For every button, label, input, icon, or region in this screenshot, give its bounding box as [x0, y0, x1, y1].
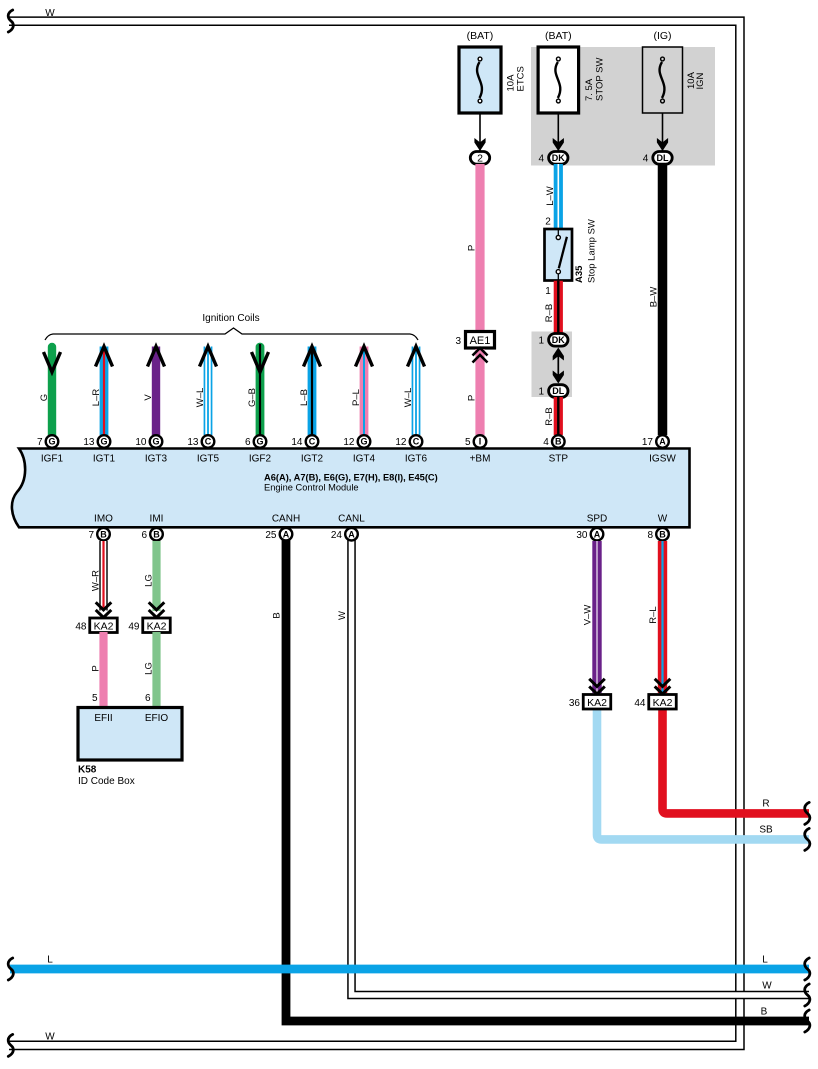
svg-text:EFII: EFII [94, 713, 112, 724]
wire R (red): from KA2-44 down, right to edge [663, 709, 810, 813]
svg-text:48: 48 [75, 622, 87, 633]
fuse 7.5A STOP SW (BAT) [538, 30, 605, 113]
double chevron into KA2-36 [589, 679, 605, 694]
svg-text:5: 5 [92, 693, 98, 704]
arrow from IGN fuse to connector 4 DL [662, 113, 664, 151]
svg-text:A: A [348, 529, 355, 539]
svg-text:10: 10 [135, 437, 147, 448]
svg-text:P: P [466, 395, 477, 401]
wire P (pink) from AE1 to ECM pin 5-I [475, 349, 484, 435]
svg-text:B: B [272, 612, 283, 618]
svg-text:44: 44 [634, 698, 646, 709]
svg-text:STOP SW: STOP SW [594, 58, 605, 101]
svg-text:25: 25 [265, 530, 277, 541]
svg-text:W: W [45, 1032, 55, 1043]
svg-text:IGSW: IGSW [649, 454, 676, 465]
svg-text:V–W: V–W [583, 605, 594, 626]
junction double arrow between DK and DL [553, 348, 564, 384]
svg-text:6: 6 [145, 693, 151, 704]
wire B-W (black) from DL oval to ECM pin 17-A [658, 164, 668, 435]
fuse 10A ETCS (BAT) [459, 30, 527, 113]
svg-text:W: W [762, 981, 772, 992]
svg-text:CANL: CANL [338, 513, 365, 524]
svg-text:(BAT): (BAT) [545, 30, 572, 42]
svg-text:A35: A35 [574, 265, 585, 283]
svg-text:W–R: W–R [90, 570, 101, 591]
svg-text:L: L [47, 955, 53, 966]
svg-text:1: 1 [545, 286, 551, 297]
arrow from STOP SW fuse to connector 4 DK [557, 113, 559, 151]
break mark SB right [805, 828, 810, 850]
wire SB (sky blue): from KA2-36 down, right to edge [597, 709, 809, 839]
svg-text:Ignition Coils: Ignition Coils [202, 313, 259, 324]
svg-text:LG: LG [144, 662, 155, 675]
double chevron into KA2-44 [655, 679, 671, 694]
svg-text:R–L: R–L [648, 606, 659, 623]
junction block KA2 pin 36 [569, 695, 611, 710]
svg-text:A: A [283, 529, 290, 539]
svg-text:P: P [91, 665, 102, 671]
break mark W top left [8, 10, 13, 32]
svg-text:G: G [152, 437, 159, 447]
svg-text:IGF1: IGF1 [41, 454, 64, 465]
K58 ID Code Box [78, 708, 182, 761]
svg-text:+BM: +BM [470, 454, 491, 465]
svg-text:L–R: L–R [91, 389, 102, 407]
double chevron into KA2-48 [96, 602, 112, 617]
connector oval 2 [470, 152, 489, 165]
svg-text:L: L [762, 955, 768, 966]
svg-text:6: 6 [245, 437, 251, 448]
stop lamp switch A35 [545, 229, 573, 281]
wire LG (light green) from KA2-49 to ID code box pin 6 EFIO [152, 632, 160, 708]
svg-text:B: B [555, 437, 562, 447]
svg-text:L–W: L–W [545, 186, 556, 206]
svg-text:KA2: KA2 [653, 697, 673, 709]
svg-text:K58: K58 [78, 765, 97, 776]
svg-text:W: W [45, 8, 55, 19]
svg-text:4: 4 [543, 437, 549, 448]
svg-text:IGT3: IGT3 [145, 454, 168, 465]
svg-text:A6(A), A7(B), E6(G), E7(H), E8: A6(A), A7(B), E6(G), E7(H), E8(I), E45(C… [264, 473, 438, 483]
break mark W right [805, 984, 810, 1006]
wire L-W (blue/white) from DK oval to stop lamp switch [554, 164, 563, 229]
svg-text:IGF2: IGF2 [249, 454, 272, 465]
svg-text:5: 5 [465, 437, 471, 448]
svg-text:4: 4 [643, 153, 649, 164]
connector oval 1 DL [539, 385, 568, 398]
svg-text:V: V [143, 394, 154, 401]
arrow from ETCS fuse to connector 2 [479, 113, 481, 151]
wire CANL (white, W): ECM pin 24-A down, right to edge [352, 540, 810, 995]
svg-text:IGT1: IGT1 [93, 454, 116, 465]
wire P (pink) from oval 2 to AE1 [475, 164, 484, 332]
svg-text:B: B [100, 529, 107, 539]
wire R-B (red/black) from DL oval to ECM pin 4-B [554, 397, 563, 435]
svg-text:W–L: W–L [403, 388, 414, 408]
svg-text:12: 12 [343, 437, 355, 448]
svg-text:KA2: KA2 [94, 620, 114, 632]
svg-text:7: 7 [88, 530, 94, 541]
svg-text:IGN: IGN [695, 72, 706, 89]
ECM: Engine Control Module block [12, 449, 690, 528]
svg-text:G: G [256, 437, 263, 447]
junction block KA2 pin 49 [128, 618, 170, 633]
wire W–L for IGT6 (ignition coil lead) [412, 347, 421, 436]
svg-text:P–L: P–L [351, 389, 362, 406]
svg-text:IGT2: IGT2 [301, 454, 324, 465]
svg-text:KA2: KA2 [587, 697, 607, 709]
wire CANH (black, B): ECM pin 25-A down, right to edge [286, 540, 809, 1021]
svg-text:EFIO: EFIO [145, 713, 169, 724]
svg-text:14: 14 [291, 437, 303, 448]
svg-text:AE1: AE1 [470, 335, 491, 347]
svg-text:I: I [479, 437, 482, 447]
connector oval 1 DK [539, 334, 568, 347]
break mark R right [805, 802, 810, 824]
svg-text:IGT6: IGT6 [405, 454, 428, 465]
svg-text:2: 2 [477, 153, 483, 165]
svg-text:IGT5: IGT5 [197, 454, 220, 465]
wire W–L for IGT5 (ignition coil lead) [204, 347, 213, 436]
svg-text:Stop Lamp SW: Stop Lamp SW [587, 219, 598, 283]
wire R-L (red/blue) from ECM pin 8-B to KA2-44 [658, 541, 667, 693]
svg-text:DK: DK [552, 335, 565, 345]
svg-text:DL: DL [657, 153, 669, 163]
svg-text:ETCS: ETCS [516, 66, 527, 91]
break mark L right [805, 958, 810, 980]
svg-text:G: G [100, 437, 107, 447]
svg-text:IGT4: IGT4 [353, 454, 376, 465]
svg-text:36: 36 [569, 698, 581, 709]
svg-text:A: A [594, 529, 601, 539]
svg-text:LG: LG [144, 574, 155, 587]
svg-text:B–W: B–W [649, 287, 660, 308]
svg-text:A: A [659, 437, 666, 447]
svg-text:DL: DL [552, 386, 564, 396]
svg-text:ID Code Box: ID Code Box [78, 776, 135, 787]
svg-text:SB: SB [759, 825, 773, 836]
wire R-B (red/black) from switch to oval 1 DK [554, 281, 563, 334]
double chevron into KA2-49 [149, 602, 165, 617]
svg-text:STP: STP [549, 454, 569, 465]
svg-text:SPD: SPD [587, 513, 608, 524]
svg-text:13: 13 [83, 437, 95, 448]
svg-text:(IG): (IG) [653, 30, 671, 42]
svg-text:G: G [360, 437, 367, 447]
wire V for IGT3 (ignition coil lead) [152, 347, 160, 436]
svg-text:G: G [39, 394, 50, 401]
svg-text:7: 7 [37, 437, 43, 448]
svg-text:12: 12 [395, 437, 407, 448]
svg-text:DK: DK [552, 153, 565, 163]
svg-text:17: 17 [642, 437, 654, 448]
junction block KA2 pin 48 [75, 618, 117, 633]
wire L–R for IGT1 (ignition coil lead) [100, 347, 109, 436]
connector oval 4 DK [539, 152, 568, 165]
svg-text:3: 3 [455, 336, 461, 347]
svg-text:C: C [205, 437, 212, 447]
junction block KA2 pin 44 [634, 695, 676, 710]
svg-text:1: 1 [539, 335, 545, 346]
wire V-W (violet/white) from ECM pin 30-A to KA2-36 [592, 541, 601, 693]
wire G for IGF1 (ignition coil lead) [44, 347, 61, 435]
svg-text:49: 49 [128, 622, 140, 633]
break mark B right [805, 1010, 810, 1032]
svg-text:(BAT): (BAT) [467, 30, 494, 42]
svg-text:13: 13 [187, 437, 199, 448]
svg-text:R: R [762, 799, 769, 810]
connector AE1 with pin 3 [455, 332, 494, 349]
svg-text:Engine Control Module: Engine Control Module [264, 482, 359, 492]
svg-text:L–B: L–B [299, 389, 310, 406]
svg-text:30: 30 [576, 530, 588, 541]
gray highlight behind STOP SW / IGN fuse area [531, 47, 715, 166]
svg-text:W–L: W–L [195, 388, 206, 408]
svg-text:P: P [466, 245, 477, 251]
gray highlight behind DK/DL junction [532, 332, 573, 398]
svg-text:8: 8 [647, 530, 653, 541]
wire P (pink) from KA2-48 to ID code box pin 5 EFII [99, 632, 107, 708]
fuse 10A IGN (IG) [643, 30, 707, 113]
svg-text:W: W [658, 513, 668, 524]
wire L–B for IGT2 (ignition coil lead) [308, 347, 317, 436]
svg-text:KA2: KA2 [147, 620, 167, 632]
break mark L left [8, 958, 13, 980]
svg-text:R–B: R–B [544, 407, 555, 425]
wire L (blue) horizontal near page bottom [10, 965, 809, 974]
wire P–L for IGT4 (ignition coil lead) [360, 347, 369, 436]
svg-text:B: B [153, 529, 160, 539]
wire LG (light green) from ECM pin 6-B to KA2-49 [152, 541, 160, 611]
svg-text:1: 1 [539, 387, 545, 398]
svg-text:IMO: IMO [94, 513, 113, 524]
svg-text:6: 6 [141, 530, 147, 541]
svg-text:2: 2 [545, 217, 551, 228]
svg-text:CANH: CANH [272, 513, 300, 524]
svg-text:C: C [309, 437, 316, 447]
connector oval 4 DL [643, 152, 672, 165]
svg-text:24: 24 [331, 530, 343, 541]
svg-text:G: G [48, 437, 55, 447]
wire W-R (white/red) from ECM pin 7-B to KA2-48 [99, 541, 107, 611]
double chevron below AE1 [473, 348, 488, 363]
svg-text:G–B: G–B [247, 388, 258, 407]
svg-text:B: B [659, 529, 666, 539]
svg-text:4: 4 [539, 153, 545, 164]
wire G–B for IGF2 (ignition coil lead) [252, 344, 269, 435]
brace and label Ignition Coils [45, 328, 418, 340]
svg-text:W: W [337, 611, 348, 620]
svg-text:B: B [761, 1007, 768, 1018]
svg-text:C: C [413, 437, 420, 447]
svg-text:IMI: IMI [150, 513, 164, 524]
svg-text:R–B: R–B [544, 304, 555, 322]
break mark W bottom left [8, 1034, 13, 1056]
